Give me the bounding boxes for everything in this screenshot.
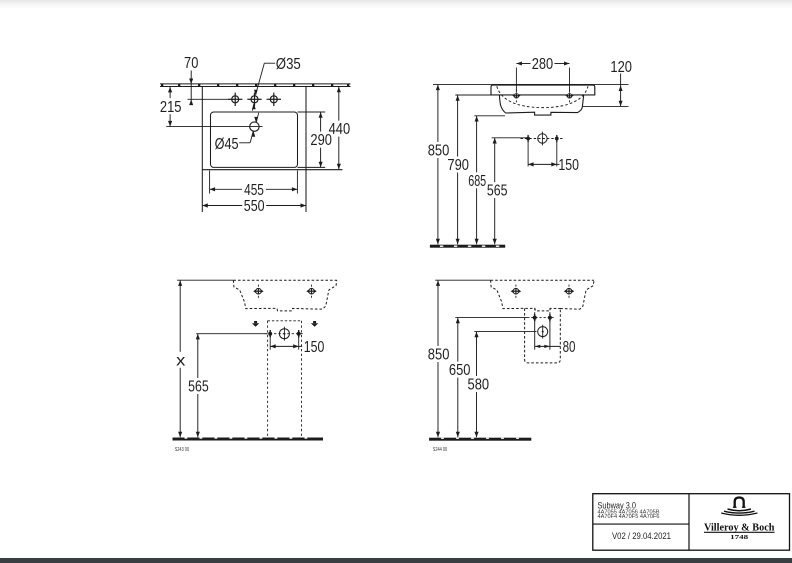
view3 fixing arrow right xyxy=(311,321,318,327)
view3 code S243 00 xyxy=(175,447,190,453)
view3 extension 565 xyxy=(196,333,267,335)
top shadow xyxy=(0,0,792,9)
dim 280 xyxy=(516,56,569,93)
view4 mounting hole right xyxy=(564,285,574,298)
title version date xyxy=(612,531,671,542)
svg-text:580: 580 xyxy=(468,377,490,394)
svg-text:565: 565 xyxy=(487,183,508,200)
logo wordmark Villeroy & Boch xyxy=(704,522,775,534)
svg-text:150: 150 xyxy=(558,157,579,174)
view1 inner bowl xyxy=(211,112,326,167)
dim 150 view2 xyxy=(528,140,579,174)
view1 drain hole xyxy=(166,122,262,131)
dim 150 view3 xyxy=(270,335,324,356)
svg-text:S244 00: S244 00 xyxy=(433,447,448,453)
logo underline xyxy=(704,531,775,533)
view4 mounting hole left xyxy=(511,285,521,298)
view3 fixing arrow left xyxy=(252,321,259,327)
svg-text:80: 80 xyxy=(563,339,576,356)
view2 floor line xyxy=(430,245,505,248)
view4 basin hidden outline xyxy=(435,280,594,311)
callout diameter 35 xyxy=(252,56,301,111)
svg-text:150: 150 xyxy=(304,339,325,356)
svg-text:V02 / 29.04.2021: V02 / 29.04.2021 xyxy=(612,531,671,542)
title article numbers line1 xyxy=(598,509,661,515)
view2 basin body xyxy=(499,95,583,115)
dim 565 view3 xyxy=(188,334,209,437)
view3 floor line xyxy=(173,438,324,441)
bottom dark bar xyxy=(0,558,792,563)
svg-text:x: x xyxy=(176,352,186,369)
view1 basin outer rectangle xyxy=(202,87,342,213)
callout diameter 45 xyxy=(215,113,259,153)
dim 215 xyxy=(160,87,182,127)
svg-text:850: 850 xyxy=(428,143,450,160)
dim 580 view4 xyxy=(468,332,490,437)
title text Subway 3.0 xyxy=(598,500,637,510)
svg-text:1748: 1748 xyxy=(730,534,748,541)
view2 mounting hole left xyxy=(512,89,520,102)
view3 basin hidden outline xyxy=(177,280,337,311)
view2 extension 565 xyxy=(492,137,527,139)
view2 extension 790 xyxy=(455,94,491,96)
dim 70 xyxy=(184,55,198,105)
view2 extension 685 xyxy=(474,115,505,117)
view4 drain hole xyxy=(538,325,548,339)
view2 mounting hole right xyxy=(566,89,574,102)
view2 tap hole group xyxy=(521,132,564,146)
svg-text:440: 440 xyxy=(329,121,351,138)
view4 floor line xyxy=(429,438,531,441)
title block frame xyxy=(593,494,790,551)
svg-text:120: 120 xyxy=(610,59,632,76)
svg-text:Ø35: Ø35 xyxy=(276,56,301,73)
dim 685 view2 xyxy=(468,116,486,244)
view4 fixing holes xyxy=(531,314,553,350)
view3 mounting hole right xyxy=(306,285,316,298)
view2 top extension line xyxy=(433,83,629,85)
view1 tap hole middle xyxy=(247,93,261,106)
view3 mounting hole left xyxy=(253,285,263,298)
svg-text:4A70F4 4A70F5 4A70F6: 4A70F4 4A70F5 4A70F6 xyxy=(598,514,660,520)
svg-text:550: 550 xyxy=(244,198,265,215)
svg-text:S243 00: S243 00 xyxy=(175,447,190,453)
dim x view3 xyxy=(176,280,186,437)
svg-text:790: 790 xyxy=(447,157,469,174)
logo year 1748 xyxy=(730,534,748,541)
view2 bowl hidden contour xyxy=(497,86,588,107)
dim 80 xyxy=(535,339,576,356)
svg-text:Ø45: Ø45 xyxy=(215,136,239,153)
dim 650 view4 xyxy=(449,318,471,437)
svg-text:565: 565 xyxy=(188,379,209,396)
view1 tap hole right xyxy=(267,93,281,106)
dim 850 view4 xyxy=(428,280,450,437)
view2 basin rim xyxy=(491,85,595,95)
svg-text:455: 455 xyxy=(244,182,264,199)
view4 extension 580 xyxy=(474,331,536,333)
view4 code S244 00 xyxy=(433,447,448,453)
svg-text:280: 280 xyxy=(532,56,553,73)
svg-text:685: 685 xyxy=(468,173,486,190)
dim 440 xyxy=(329,87,351,170)
logo crest xyxy=(721,498,757,516)
view3 fixing hole group xyxy=(265,327,304,341)
svg-text:215: 215 xyxy=(160,99,182,116)
view1 tap hole left xyxy=(228,93,242,106)
dim 550 xyxy=(202,198,306,215)
svg-text:70: 70 xyxy=(184,55,198,72)
dim 290 xyxy=(310,112,332,167)
dim 850 view2 xyxy=(428,85,450,245)
view4 extension 650 xyxy=(455,317,529,319)
view4 siphon hidden column xyxy=(525,308,561,363)
view3 fixing chase dashed box xyxy=(268,321,302,438)
svg-text:850: 850 xyxy=(428,347,450,364)
dim 455 xyxy=(210,171,298,199)
dim 790 view2 xyxy=(447,95,469,244)
view1 wall section band xyxy=(160,84,351,87)
dim 120 xyxy=(583,59,633,106)
view1 tap centerline extension xyxy=(188,98,230,100)
dim 565 view2 xyxy=(487,138,508,244)
title article numbers line2 xyxy=(598,514,660,520)
